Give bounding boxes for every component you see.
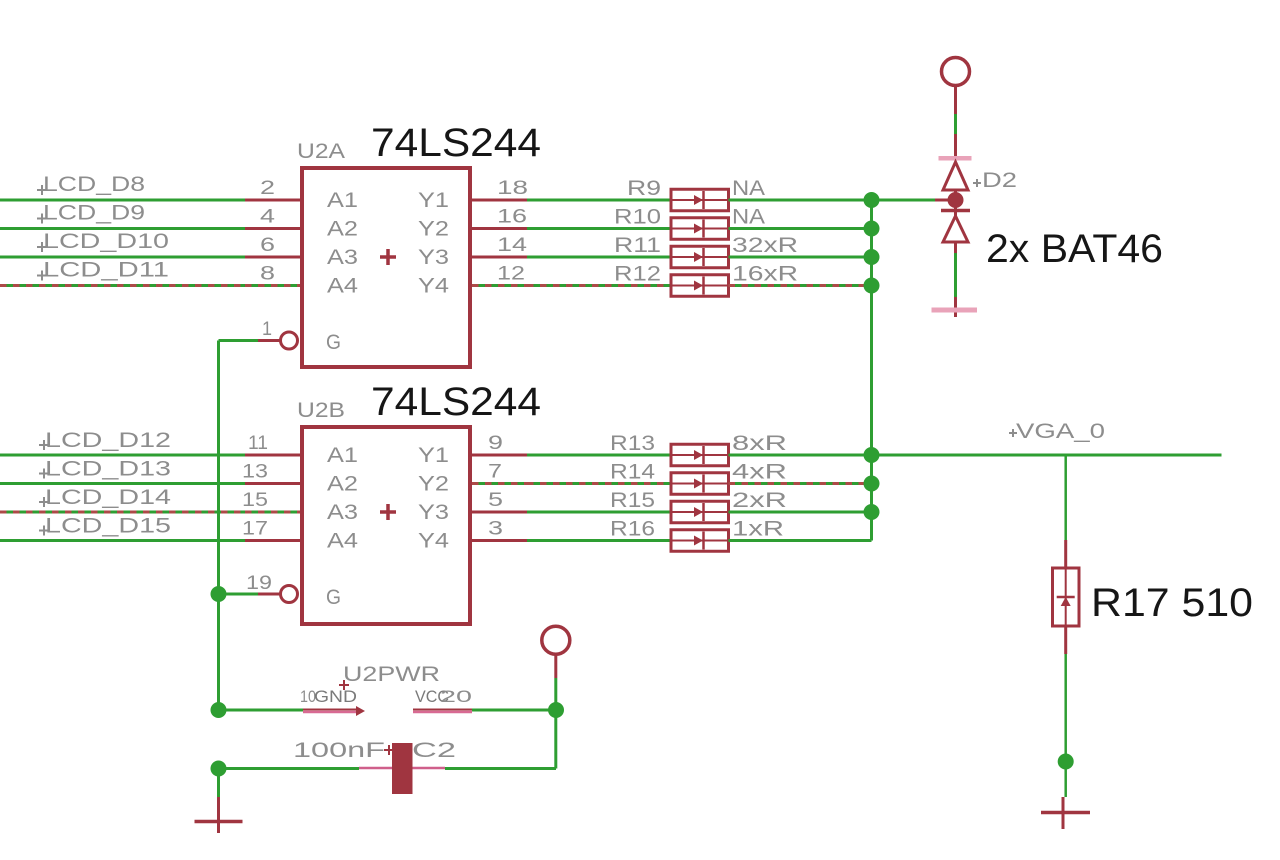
wire net LCD_D14 highlighted left	[0, 511, 245, 514]
wire Y3 to R15	[527, 511, 671, 514]
pin stub U2A pin 12	[472, 284, 527, 287]
polarity mark U2A	[380, 249, 396, 265]
terminal circle vcc	[542, 626, 570, 654]
wire summing vertical	[870, 200, 873, 541]
svg-text:5: 5	[488, 490, 503, 511]
svg-text:A1: A1	[327, 189, 358, 212]
wire VGA_0	[729, 454, 1222, 457]
svg-text:R17 510: R17 510	[1091, 581, 1253, 625]
wire R11 to junction	[729, 256, 872, 259]
diode D2 lower triangle	[943, 216, 968, 242]
svg-text:R13: R13	[610, 432, 655, 455]
junction dot D2 mid	[948, 192, 964, 208]
label LCD_D12	[39, 440, 49, 450]
wire pin19 to vertical	[219, 593, 259, 596]
wire vcc terminal down	[554, 678, 557, 710]
svg-text:G: G	[326, 586, 341, 609]
pin stub U2A pin 1	[258, 339, 281, 342]
capacitor C2 left pin	[359, 767, 392, 770]
polarity mark U2B	[380, 504, 396, 520]
junction dot row 2 upper	[864, 221, 880, 237]
svg-text:NA: NA	[732, 206, 765, 229]
pin stub gnd top-right	[954, 297, 957, 317]
pin stub U2B pin 11	[245, 454, 302, 457]
svg-text:NA: NA	[732, 177, 765, 200]
svg-text:4xR: 4xR	[732, 461, 787, 484]
pin stub ground left	[217, 797, 220, 833]
svg-text:32xR: 32xR	[732, 234, 798, 257]
pin stub U2B pin 3	[472, 539, 527, 542]
IC U2A 74LS244 box	[302, 168, 470, 367]
label LCD_D13	[39, 469, 49, 479]
wire Y3 to R11	[527, 256, 671, 259]
junction dot row 1 upper	[864, 192, 880, 208]
resistor R13	[671, 444, 729, 466]
wire vcc down to cap row	[554, 710, 557, 769]
svg-text:8xR: 8xR	[732, 432, 787, 455]
svg-text:100nF: 100nF	[293, 739, 385, 762]
pin stub vcc terminal	[554, 653, 557, 678]
svg-text:C2: C2	[412, 739, 456, 762]
svg-text:LCD_D14: LCD_D14	[45, 486, 171, 509]
svg-text:20: 20	[440, 687, 472, 706]
wire net LCD_D9	[0, 227, 245, 230]
capacitor C2 right pin	[413, 767, 446, 770]
pin stub U2B pin 15	[245, 511, 302, 514]
svg-text:74LS244: 74LS244	[371, 380, 541, 424]
wire Y1 to R9	[527, 199, 671, 202]
resistor R11	[671, 246, 729, 268]
svg-text:Y3: Y3	[418, 501, 449, 524]
wire Y4 to R12 highlighted	[527, 284, 671, 287]
svg-text:R12: R12	[614, 263, 661, 286]
pin stub R17 top	[1064, 540, 1067, 568]
resistor R14	[671, 473, 729, 495]
pin stub U2A pin 16	[472, 227, 527, 230]
svg-text:U2PWR: U2PWR	[343, 663, 440, 686]
pin 19 bubble U2B	[281, 586, 298, 603]
label LCD_D9	[37, 214, 47, 224]
svg-text:16xR: 16xR	[732, 263, 798, 286]
svg-text:LCD_D9: LCD_D9	[43, 202, 145, 225]
svg-text:GND: GND	[314, 687, 357, 706]
wire dot to ground R17	[1064, 769, 1067, 797]
svg-text:R9: R9	[627, 177, 661, 200]
svg-text:74LS244: 74LS244	[371, 121, 541, 165]
wire Y1 to R13	[527, 454, 671, 457]
pin stub U2B pin 19	[258, 593, 281, 596]
wire R10 to junction	[729, 227, 872, 230]
svg-text:17: 17	[242, 519, 268, 540]
junction dot gnd row	[211, 702, 227, 718]
junction dot vcc row	[548, 702, 564, 718]
junction dot row 3 upper	[864, 249, 880, 265]
resistor R15	[671, 501, 729, 523]
svg-text:LCD_D13: LCD_D13	[45, 458, 171, 481]
pin stub terminal	[954, 85, 957, 114]
pin stub U2B pin 17	[245, 539, 302, 542]
wire net LCD_D11 highlighted left	[0, 284, 245, 287]
svg-text:LCD_D11: LCD_D11	[43, 259, 169, 282]
junction dot row 4 upper	[864, 278, 880, 294]
wire R13 to junction	[729, 454, 872, 457]
pin stub U2A pin 14	[472, 256, 527, 259]
wire stub D2 mid	[954, 190, 957, 218]
svg-text:LCD_D12: LCD_D12	[45, 429, 171, 452]
svg-text:12: 12	[497, 264, 525, 285]
wire D2 to ground	[954, 253, 957, 297]
svg-text:D2: D2	[982, 169, 1017, 192]
origin cross C2	[384, 745, 394, 755]
capacitor C2 plate	[392, 743, 413, 794]
svg-text:16: 16	[497, 207, 527, 228]
svg-text:3: 3	[488, 519, 503, 540]
svg-text:9: 9	[488, 433, 503, 454]
pin stub D2 top cathode	[954, 134, 957, 156]
origin cross U2PWR	[339, 680, 349, 690]
svg-text:11: 11	[248, 433, 268, 454]
label D2	[973, 179, 981, 187]
svg-text:2x BAT46: 2x BAT46	[986, 227, 1163, 271]
wire Y4 to R16	[527, 539, 671, 542]
wire net LCD_D10	[0, 256, 245, 259]
pin stub ground R17	[1062, 797, 1065, 829]
pin stub D2 anode	[935, 199, 952, 202]
svg-text:R14: R14	[610, 461, 655, 484]
svg-text:Y1: Y1	[418, 189, 449, 212]
pin VCC U2PWR	[413, 709, 472, 711]
wire VGA_0 to R17	[1064, 455, 1067, 540]
svg-text:1: 1	[262, 319, 272, 340]
pin stub U2A pin 4	[245, 227, 300, 230]
pin stub U2B pin 13	[245, 482, 302, 485]
wire pin1 to vertical	[219, 339, 259, 342]
svg-text:R16: R16	[610, 518, 655, 541]
wire R17 to gnd dot	[1064, 654, 1067, 754]
wire terminal to D2	[954, 114, 957, 134]
svg-text:4: 4	[260, 207, 276, 228]
terminal circle top	[942, 58, 970, 86]
wire cap row right	[445, 767, 556, 770]
svg-text:LCD_D8: LCD_D8	[43, 173, 145, 196]
svg-text:Y4: Y4	[418, 530, 449, 553]
wire Y2 to R14 highlighted	[527, 482, 671, 485]
pin stub U2B pin 5	[472, 511, 527, 514]
wire R9 to junction	[729, 199, 872, 202]
resistor R9	[671, 189, 729, 211]
svg-text:2xR: 2xR	[732, 489, 787, 512]
wire vcc row	[472, 709, 556, 712]
diode D2 upper cathode bar	[939, 156, 972, 161]
svg-text:A3: A3	[327, 501, 358, 524]
pin stub U2B pin 9	[472, 454, 527, 457]
label LCD_D14	[39, 497, 49, 507]
svg-text:G: G	[326, 331, 341, 354]
ground symbol near D2	[932, 308, 978, 313]
pin stub U2A pin 18	[472, 199, 527, 202]
wire net LCD_D12	[0, 454, 245, 457]
svg-text:VGA_0: VGA_0	[1016, 420, 1105, 443]
svg-text:19: 19	[246, 573, 272, 594]
pin stub U2A pin 6	[245, 256, 300, 259]
wire gnd row	[219, 709, 304, 712]
svg-text:R10: R10	[614, 206, 661, 229]
label LCD_D10	[37, 242, 47, 252]
svg-text:7: 7	[488, 462, 502, 483]
resistor R16	[671, 530, 729, 552]
IC U2B 74LS244 box	[302, 427, 470, 624]
svg-text:R15: R15	[610, 489, 655, 512]
junction dot R17 gnd	[1058, 754, 1074, 770]
svg-text:A1: A1	[327, 444, 358, 467]
wire R12 to junction highlighted	[729, 284, 872, 287]
svg-text:6: 6	[260, 235, 275, 256]
svg-text:U2A: U2A	[297, 140, 345, 163]
wire junction to D2	[872, 199, 936, 202]
svg-text:8: 8	[260, 264, 275, 285]
junction dot pin19	[211, 586, 227, 602]
diode D2 upper triangle	[943, 162, 968, 190]
label LCD_D8	[37, 185, 47, 195]
wire enable vertical	[217, 341, 220, 711]
wire cap row left	[219, 767, 360, 770]
svg-text:15: 15	[242, 490, 268, 511]
wire net LCD_D15	[0, 539, 245, 542]
wire net LCD_D8	[0, 199, 245, 202]
svg-text:Y2: Y2	[418, 218, 449, 241]
label VGA_0	[1009, 429, 1017, 437]
svg-text:18: 18	[497, 178, 528, 199]
pin 1 bubble U2A	[281, 332, 298, 349]
svg-text:R11: R11	[614, 234, 661, 257]
wire Y2 to R10	[527, 227, 671, 230]
svg-text:U2B: U2B	[297, 399, 345, 422]
svg-text:A2: A2	[327, 218, 358, 241]
junction dot row 2 lower	[864, 476, 880, 492]
pin GND U2PWR	[303, 709, 358, 711]
svg-text:LCD_D10: LCD_D10	[43, 230, 169, 253]
diode D2 lower cathode bar	[941, 209, 970, 213]
wire R14 to junction highlighted	[729, 482, 872, 485]
svg-text:2: 2	[260, 178, 275, 199]
label LCD_D11	[37, 271, 47, 281]
resistor R10	[671, 218, 729, 240]
svg-text:A3: A3	[327, 246, 358, 269]
svg-text:A4: A4	[327, 275, 358, 298]
wire R16 to junction	[729, 539, 872, 542]
ground symbol left	[195, 820, 243, 824]
wire net LCD_D13	[0, 482, 245, 485]
svg-text:Y1: Y1	[418, 444, 449, 467]
svg-text:A4: A4	[327, 530, 358, 553]
pin stub U2A pin 8	[245, 284, 300, 287]
svg-text:Y3: Y3	[418, 246, 449, 269]
wire R15 to junction	[729, 511, 872, 514]
resistor R17	[1053, 568, 1080, 626]
resistor R12	[671, 275, 729, 297]
pin stub U2B pin 7	[472, 482, 527, 485]
svg-text:14: 14	[497, 235, 528, 256]
wire dot to ground left	[217, 769, 220, 798]
svg-text:A2: A2	[327, 473, 358, 496]
svg-text:1xR: 1xR	[732, 518, 784, 541]
svg-text:Y4: Y4	[418, 275, 449, 298]
ground symbol R17	[1041, 811, 1090, 815]
svg-text:Y2: Y2	[418, 473, 449, 496]
pin stub U2A pin 2	[245, 199, 300, 202]
label LCD_D15	[39, 526, 49, 536]
junction dot row 1 lower	[864, 447, 880, 463]
svg-text:13: 13	[242, 462, 268, 483]
svg-text:LCD_D15: LCD_D15	[45, 515, 171, 538]
junction dot cap row	[211, 761, 227, 777]
pin stub R17 bottom	[1064, 626, 1067, 654]
pin stub D2 lower anode	[954, 242, 957, 253]
junction dot row 3 lower	[864, 504, 880, 520]
